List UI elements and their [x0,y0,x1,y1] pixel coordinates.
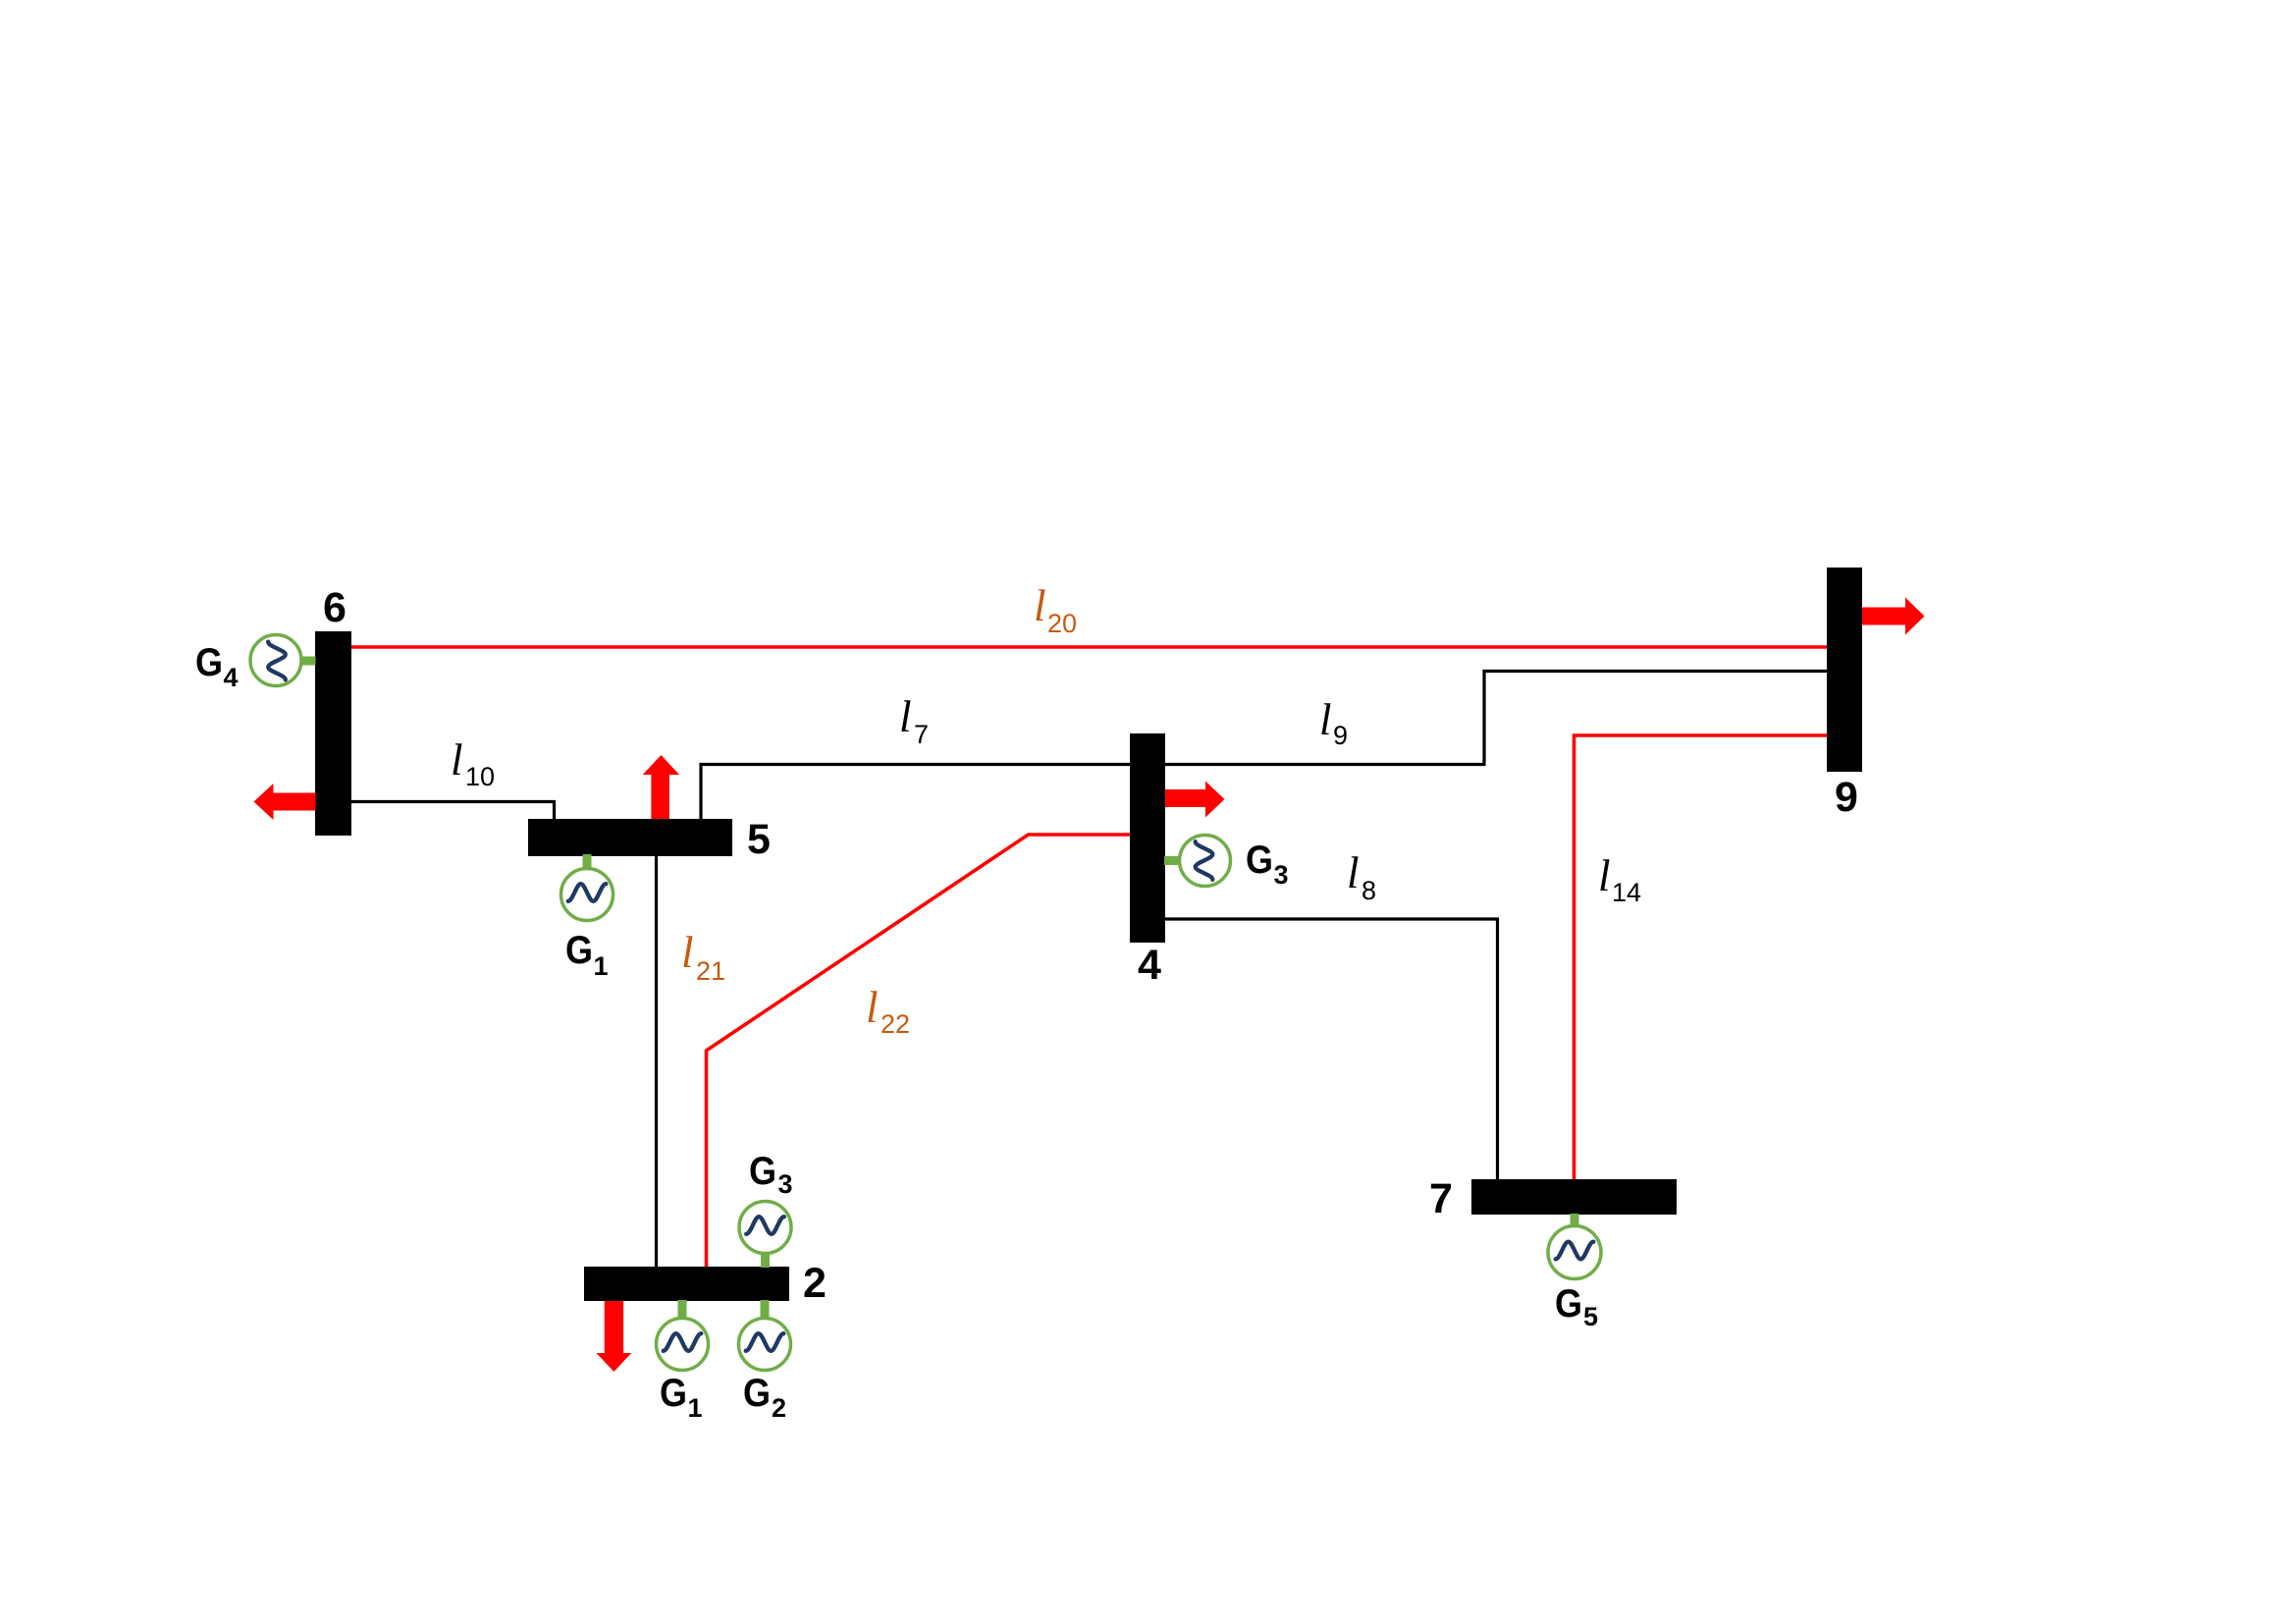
svg-text:G: G [195,641,223,684]
svg-text:l: l [1034,581,1046,630]
svg-text:l: l [1598,851,1611,900]
wire l22 (red line bus 2 to bus 4) [707,835,1131,1267]
G1 label below bus 2 [660,1372,703,1423]
generator G1 below bus 2 [657,1300,709,1371]
G3 label at bus 4 [1246,839,1289,890]
bus 9 (busbar) [1827,568,1862,772]
wire l14 (red line bus 9 to bus 7) [1575,735,1828,1179]
line label l22 [866,983,910,1039]
G1 label at bus 5 [565,929,609,981]
svg-text:7: 7 [1429,1175,1453,1222]
line label l21 [681,928,725,986]
wire l10 (bus 6 to bus 5) [351,802,555,820]
load arrow at bus 5 [643,755,679,819]
line label l7 [899,692,929,749]
svg-text:l: l [1347,848,1360,897]
line label l14 [1598,851,1641,907]
svg-text:G: G [1555,1282,1582,1326]
svg-text:2: 2 [772,1393,786,1423]
svg-text:3: 3 [1274,860,1289,890]
generator G4 at bus 6 [250,635,316,686]
svg-text:l: l [681,928,694,977]
load arrow at bus 6 [254,784,316,820]
G3 label above bus 2 [749,1150,793,1199]
svg-text:3: 3 [778,1169,793,1199]
svg-text:14: 14 [1612,878,1641,907]
line label l10 [451,735,495,791]
bus 7 (busbar) [1471,1179,1677,1215]
svg-text:21: 21 [696,956,725,986]
svg-text:22: 22 [881,1009,910,1039]
line label l20 [1034,581,1077,638]
G4 label [195,641,239,692]
svg-text:5: 5 [1583,1302,1598,1331]
svg-text:l: l [451,735,463,785]
svg-text:10: 10 [465,762,495,791]
svg-text:8: 8 [1362,876,1376,905]
svg-text:7: 7 [914,720,929,749]
load arrow at bus 9 [1862,598,1925,635]
bus 4 (busbar) [1130,733,1165,943]
bus 2 (busbar) [584,1267,789,1301]
G5 label at bus 7 [1555,1282,1598,1331]
generator G2 below bus 2 [739,1300,791,1371]
line label l8 [1347,848,1376,905]
svg-text:9: 9 [1835,774,1858,821]
wire l21 (bus 5 to bus 2) [655,856,658,1267]
load arrow at bus 4 [1165,782,1225,818]
generator G3 at bus 4 [1164,836,1231,887]
line label l9 [1319,695,1348,750]
wire l8 (bus 4 to bus 7) [1165,919,1498,1179]
generator G3 above bus 2 [739,1202,791,1269]
svg-text:G: G [1246,839,1273,882]
G2 label below bus 2 [743,1372,786,1423]
svg-text:4: 4 [1138,942,1161,989]
svg-text:20: 20 [1047,609,1077,638]
svg-text:G: G [743,1372,771,1415]
svg-text:5: 5 [747,816,771,863]
svg-text:2: 2 [803,1260,827,1307]
svg-text:l: l [1319,695,1332,744]
wire l20 (red line bus 6 to bus 9) [351,645,1827,649]
svg-text:l: l [899,692,912,741]
svg-text:1: 1 [688,1393,703,1423]
generator G1 at bus 5 [561,854,614,921]
wire l9 (bus 4 to bus 9) [1165,672,1827,765]
svg-text:4: 4 [224,663,239,692]
bus 6 (busbar) [315,631,351,836]
svg-text:9: 9 [1333,721,1348,750]
wire l7 (bus 5 to bus 4) [701,765,1130,820]
load arrow at bus 2 [597,1301,632,1372]
svg-text:6: 6 [323,584,347,631]
generator G5 at bus 7 [1548,1214,1601,1279]
svg-text:G: G [749,1150,776,1193]
bus 5 (busbar) [528,819,732,856]
svg-text:l: l [866,983,879,1032]
svg-text:G: G [660,1372,687,1415]
svg-text:G: G [565,929,593,972]
svg-text:1: 1 [594,951,609,981]
